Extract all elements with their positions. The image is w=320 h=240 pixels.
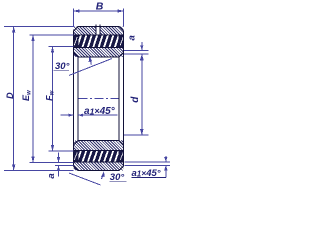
dimension Ew: extension lines — [30, 35, 74, 163]
dimension Ew: dimension line with arrows — [31, 35, 34, 163]
bore left chamfer edge line — [77, 57, 79, 141]
callout a1x45 (middle): leader arrows — [61, 114, 118, 117]
bore right chamfer edge line — [118, 57, 120, 141]
svg-text:a1×45°: a1×45° — [84, 106, 116, 117]
rib hatch marks top — [74, 37, 123, 46]
dimension B: extension lines — [74, 9, 124, 27]
30deg callout (top): leader line — [69, 56, 112, 75]
svg-text:a: a — [126, 35, 137, 40]
rib hatch marks bottom — [74, 153, 123, 161]
svg-text:a: a — [46, 173, 57, 178]
bearing top section: outline — [74, 27, 124, 58]
callout a1x45 (bottom right): extension lines — [125, 162, 171, 166]
svg-text:Fw: Fw — [45, 90, 56, 101]
bearing top section: outer ring band hatch — [74, 27, 124, 36]
bearing top section: left rib — [74, 35, 79, 48]
bearing bottom section: needle rollers — [74, 150, 127, 163]
dimension a (bottom left): extension line — [55, 165, 74, 167]
callout a1x45 (bottom right): arrows and leader — [164, 156, 167, 178]
bearing top section: right rib — [119, 35, 124, 48]
svg-text:d: d — [130, 96, 141, 103]
bearing top section: inner ring band hatch — [74, 48, 124, 58]
bearing bottom section: inner ring band hatch — [74, 141, 124, 151]
bore left face line — [73, 53, 75, 146]
dimension d: dimension line with arrows — [140, 54, 143, 135]
bearing top section: needle rollers — [74, 34, 127, 48]
bore right face line — [123, 53, 125, 146]
dimension B: dimension line with arrows — [74, 9, 124, 12]
label a1x45 (bottom right), underlined — [132, 168, 166, 179]
30deg callout (bottom): leader line — [69, 171, 105, 185]
dimension a (top right): arrows — [140, 42, 143, 59]
bearing bottom section: left rib — [74, 151, 79, 163]
centerline (axis) — [79, 98, 119, 100]
bearing bottom section: right rib — [119, 151, 124, 163]
dimension D: dimension line with arrows — [12, 27, 15, 171]
dimension D: extension lines — [4, 27, 75, 171]
label 30deg (bottom), underlined — [110, 172, 127, 183]
bearing bottom section: outline — [74, 141, 124, 171]
dimension a (top right): extension lines — [124, 50, 149, 54]
dimension a (bottom left): arrows — [57, 153, 60, 177]
svg-text:Ew: Ew — [21, 90, 32, 101]
dimension Fw: dimension line with arrows — [51, 47, 54, 152]
oil hole in outer ring top — [96, 25, 100, 35]
bearing bottom section: outer ring band hatch — [74, 162, 124, 171]
svg-text:D: D — [5, 92, 15, 99]
label 30deg (top), underlined — [54, 61, 70, 72]
svg-text:B: B — [96, 1, 104, 13]
dimension d: bottom extension tick — [124, 134, 149, 136]
dimension Fw: extension lines — [49, 47, 74, 152]
